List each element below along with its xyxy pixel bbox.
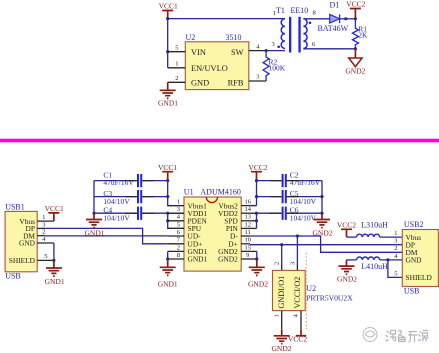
svg-text:GND2: GND2 bbox=[248, 280, 268, 289]
node C3 junction bbox=[166, 195, 169, 198]
connector USB2 bbox=[402, 230, 438, 287]
svg-text:1: 1 bbox=[175, 61, 178, 68]
watermark bbox=[363, 328, 377, 342]
svg-text:VCC2: VCC2 bbox=[346, 0, 365, 9]
svg-text:9: 9 bbox=[246, 252, 249, 259]
wire SHIELD up to GND bbox=[388, 260, 402, 278]
wire VCC1 rail to T1 pin1 bbox=[168, 19, 285, 68]
power VCC2 (cap bank) bbox=[251, 172, 262, 181]
node GND1 junction bbox=[166, 257, 169, 260]
power VCC2 (PRTR, bar down) bbox=[296, 335, 306, 337]
node C5 junction bbox=[255, 195, 258, 198]
svg-text:3: 3 bbox=[394, 238, 397, 245]
svg-text:2: 2 bbox=[394, 245, 397, 252]
svg-text:1: 1 bbox=[394, 230, 397, 237]
node R1 bottom junction bbox=[354, 47, 357, 50]
ground GND2 (PRTR) bbox=[274, 336, 290, 344]
svg-text:3: 3 bbox=[177, 206, 180, 213]
wire GND1 pins vertical bbox=[167, 251, 169, 259]
svg-text:47uF/16V: 47uF/16V bbox=[290, 178, 321, 187]
node C4 left junction bbox=[92, 212, 95, 215]
svg-text:5: 5 bbox=[177, 221, 180, 228]
resistor R2 bbox=[263, 51, 269, 81]
svg-text:SHIELD: SHIELD bbox=[406, 273, 433, 282]
svg-text:1: 1 bbox=[177, 199, 180, 206]
pin 2 GND1 bbox=[168, 250, 184, 252]
node D+ to PRTR bbox=[280, 243, 283, 246]
node VCC1 rail junction bbox=[166, 17, 169, 20]
wire SPD/PIN to VDD2 bbox=[256, 213, 258, 228]
wire GND pin down bbox=[281, 311, 283, 330]
notch U1 bbox=[206, 197, 217, 203]
polarity dot pin3 bbox=[277, 46, 280, 49]
svg-text:U2: U2 bbox=[306, 284, 316, 293]
wire DP to UD+ bbox=[45, 228, 168, 243]
pin 8 GND1 bbox=[168, 258, 184, 260]
svg-text:GND1: GND1 bbox=[188, 255, 208, 264]
svg-text:104/10V: 104/10V bbox=[290, 197, 317, 206]
pin 2 GND bbox=[168, 81, 186, 83]
resistor R1 bbox=[352, 19, 358, 49]
wire D+ bus to USB2 DP bbox=[250, 244, 402, 246]
svg-text:ADUM4160: ADUM4160 bbox=[200, 187, 240, 196]
pin 4 GND bbox=[37, 242, 54, 244]
pin 16 Vbus2 bbox=[241, 205, 256, 207]
svg-text:T1: T1 bbox=[276, 6, 285, 15]
svg-text:EE10: EE10 bbox=[291, 6, 309, 15]
svg-text:VCC1: VCC1 bbox=[158, 163, 177, 172]
wire cap bank left vertical bbox=[93, 181, 95, 214]
node VIN junction bbox=[166, 50, 169, 53]
ground GND1 (under U2) bbox=[160, 82, 176, 98]
svg-text:GND2: GND2 bbox=[272, 344, 292, 353]
transformer core bbox=[289, 17, 291, 53]
svg-text:VCC2: VCC2 bbox=[337, 220, 356, 229]
node D- to PRTR bbox=[296, 234, 299, 237]
svg-text:GND2: GND2 bbox=[218, 255, 238, 264]
node SHIELD junction bbox=[52, 259, 55, 262]
wire VCC pin down bbox=[300, 311, 302, 330]
wire D- bus to USB2 DM bbox=[250, 236, 402, 252]
pin 5 SHIELD bbox=[37, 259, 54, 261]
pin 12 PIN bbox=[241, 227, 256, 229]
pin 1 EN/UVLO bbox=[168, 67, 186, 69]
ground GND2 (L4) bbox=[339, 260, 355, 274]
svg-text:2: 2 bbox=[175, 75, 178, 82]
wire GND down to SHIELD bbox=[53, 243, 55, 260]
node PDEN junction bbox=[166, 219, 169, 222]
svg-text:U2: U2 bbox=[186, 33, 196, 42]
svg-text:GND: GND bbox=[406, 256, 423, 265]
pin 2 DM bbox=[37, 235, 45, 237]
svg-text:VCC2: VCC2 bbox=[288, 335, 307, 344]
svg-text:VCCI/O2: VCCI/O2 bbox=[293, 277, 302, 309]
pin 1 Vbus bbox=[37, 220, 54, 222]
svg-text:1: 1 bbox=[273, 10, 276, 17]
svg-text:1: 1 bbox=[42, 214, 45, 221]
transformer left winding bbox=[281, 19, 285, 49]
pin 1 Vbus1 bbox=[168, 205, 184, 207]
wire GND2 pins vertical bbox=[256, 251, 258, 259]
svg-text:GND2: GND2 bbox=[337, 275, 357, 284]
svg-text:47uF/16V: 47uF/16V bbox=[103, 178, 134, 187]
svg-text:2: 2 bbox=[274, 262, 281, 265]
ground GND2 (cap bank) bbox=[314, 213, 330, 227]
svg-text:2K: 2K bbox=[358, 30, 368, 39]
svg-text:USB: USB bbox=[5, 272, 21, 281]
svg-text:100K: 100K bbox=[269, 63, 286, 72]
node R1 top junction bbox=[354, 17, 357, 20]
svg-text:104/10V: 104/10V bbox=[103, 197, 130, 206]
svg-text:RFB: RFB bbox=[228, 78, 244, 87]
pin 11 D- bbox=[241, 235, 250, 237]
pin 4 SW bbox=[249, 50, 266, 52]
svg-text:3510: 3510 bbox=[226, 33, 242, 42]
svg-text:GND2: GND2 bbox=[345, 67, 365, 76]
pin 15 GND2 bbox=[241, 250, 257, 252]
svg-text:GND1: GND1 bbox=[85, 228, 105, 237]
power VCC2 (L3) bbox=[341, 229, 352, 237]
svg-text:VCC1: VCC1 bbox=[159, 2, 178, 11]
wire D+ down to I/O1 bbox=[281, 245, 283, 263]
svg-text:104/10V: 104/10V bbox=[103, 214, 130, 223]
power VCC1 (cap bank) bbox=[162, 172, 173, 181]
wire cap bank right vertical bbox=[321, 181, 323, 214]
svg-text:3: 3 bbox=[256, 74, 259, 81]
svg-text:USB1: USB1 bbox=[5, 202, 25, 211]
pin 4 PDEN bbox=[168, 220, 184, 222]
svg-text:VCC2: VCC2 bbox=[248, 163, 267, 172]
dashed selection line bbox=[305, 253, 307, 329]
svg-text:GND1: GND1 bbox=[45, 277, 65, 286]
svg-text:SW: SW bbox=[231, 48, 244, 57]
pin 6 UD- bbox=[168, 235, 184, 237]
svg-text:VIN: VIN bbox=[191, 48, 206, 57]
node SW/R2 junction bbox=[265, 49, 268, 52]
node GND/SHIELD junction bbox=[386, 258, 389, 261]
svg-text:BAT46W: BAT46W bbox=[318, 24, 349, 33]
node SPD junction bbox=[255, 219, 258, 222]
pin 9 GND2 bbox=[241, 258, 257, 260]
svg-text:5: 5 bbox=[44, 253, 47, 260]
svg-text:GND: GND bbox=[191, 78, 209, 87]
power VCC1 (top) bbox=[162, 11, 173, 19]
ground GND2 (U1 right) bbox=[249, 259, 265, 275]
node C1 junction bbox=[166, 179, 169, 182]
TOP_DONE bbox=[5, 163, 184, 286]
pin 5 SPU bbox=[168, 227, 184, 229]
svg-text:SHIELD: SHIELD bbox=[9, 256, 36, 265]
svg-text:L410uH: L410uH bbox=[361, 262, 388, 271]
ground GND1 (USB1) bbox=[46, 260, 62, 276]
divider magenta bbox=[0, 139, 439, 143]
IC U2 PRTR5V0U2X bbox=[273, 270, 306, 310]
IC U1 ADUM4160 bbox=[184, 197, 241, 271]
svg-text:8: 8 bbox=[177, 252, 180, 259]
svg-text:3: 3 bbox=[42, 221, 45, 228]
power VCC2 (top) bbox=[350, 9, 361, 19]
svg-text:GND2: GND2 bbox=[313, 228, 333, 237]
svg-text:EN/UVLO: EN/UVLO bbox=[191, 64, 228, 73]
svg-text:8: 8 bbox=[313, 10, 316, 17]
svg-text:11: 11 bbox=[245, 229, 251, 236]
svg-text:U1: U1 bbox=[184, 187, 194, 196]
svg-text:GND: GND bbox=[19, 239, 36, 248]
wire T1 pin8 to D1 bbox=[303, 18, 329, 20]
svg-text:2: 2 bbox=[42, 229, 45, 236]
svg-text:1: 1 bbox=[274, 314, 281, 317]
node VDD2 junction bbox=[255, 212, 258, 215]
node GND2 junction bbox=[255, 257, 258, 260]
svg-text:14: 14 bbox=[245, 206, 252, 213]
svg-text:USB2: USB2 bbox=[404, 220, 424, 229]
svg-text:VCC1: VCC1 bbox=[45, 204, 64, 213]
ground GND1 (cap bank) bbox=[86, 213, 102, 227]
svg-text:16: 16 bbox=[245, 199, 252, 206]
pin 5 VIN bbox=[168, 51, 186, 53]
wire D- down to I/O2 bbox=[296, 236, 298, 262]
svg-text:D1: D1 bbox=[330, 1, 340, 10]
svg-text:PRTR5V0U2X: PRTR5V0U2X bbox=[306, 294, 353, 303]
pin 14 VDD2 bbox=[241, 212, 256, 214]
svg-text:10: 10 bbox=[245, 237, 252, 244]
wire T1 pin6 to R1 bottom bbox=[303, 48, 355, 50]
node C4/VDD1 junction bbox=[166, 212, 169, 215]
node C2 junction bbox=[255, 179, 258, 182]
node C6 right junction bbox=[320, 212, 323, 215]
wire DM to UD- bbox=[45, 235, 168, 237]
node C5 right junction bbox=[320, 195, 323, 198]
svg-text:3: 3 bbox=[272, 41, 275, 48]
svg-text:3: 3 bbox=[289, 262, 296, 265]
transformer right winding bbox=[303, 19, 307, 49]
power VCC1 (USB1) bbox=[48, 213, 59, 221]
svg-text:5: 5 bbox=[175, 45, 178, 52]
svg-text:L310uH: L310uH bbox=[361, 220, 388, 229]
wire VDD1 vertical to SPU bbox=[168, 213, 184, 228]
wire SW to T1 pin3 bbox=[266, 50, 285, 52]
ground GND2 (triangle, top section) bbox=[354, 49, 356, 58]
diode D1 BAT46W bbox=[330, 14, 340, 23]
pin 3 DP bbox=[37, 227, 45, 229]
op-amp U2 (regulator 3510) bbox=[185, 42, 249, 90]
wire VCC1 vertical to pin1 bbox=[168, 181, 184, 206]
svg-text:15: 15 bbox=[245, 244, 252, 251]
svg-text:5: 5 bbox=[394, 270, 397, 277]
svg-text:GNDI/O1: GNDI/O1 bbox=[277, 276, 286, 309]
pin 3 VDD1 bbox=[168, 212, 184, 214]
ground GND1 (U1 left) bbox=[160, 259, 176, 275]
wire VCC2 vertical to pin16 bbox=[256, 181, 258, 206]
pin 10 D+ bbox=[241, 243, 250, 245]
U1_DONE bbox=[248, 163, 438, 353]
wire D1 to VCC2 bbox=[340, 18, 356, 20]
svg-text:GND1: GND1 bbox=[158, 280, 178, 289]
svg-text:USB: USB bbox=[404, 286, 420, 295]
connector USB1 bbox=[5, 211, 37, 271]
svg-text:104/10V: 104/10V bbox=[290, 214, 317, 223]
pin 3 RFB bbox=[249, 80, 266, 82]
polarity dot pin8 bbox=[309, 22, 312, 25]
node diode out bbox=[344, 17, 347, 20]
svg-text:2: 2 bbox=[177, 244, 180, 251]
svg-text:12: 12 bbox=[245, 221, 252, 228]
pin 7 UD+ bbox=[168, 243, 184, 245]
pin 13 SPD bbox=[241, 220, 256, 222]
svg-text:GND1: GND1 bbox=[158, 99, 178, 108]
svg-text:13: 13 bbox=[245, 214, 252, 221]
